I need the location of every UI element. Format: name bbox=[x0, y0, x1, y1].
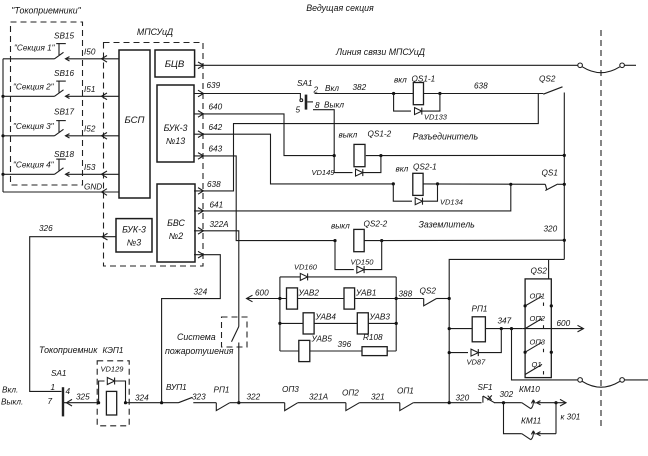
connector plug КМ11 bottom bbox=[522, 431, 541, 440]
svg-text:302: 302 bbox=[500, 390, 514, 399]
svg-text:QS2: QS2 bbox=[420, 287, 437, 296]
svg-text:КМ10: КМ10 bbox=[519, 385, 540, 394]
svg-text:R108: R108 bbox=[363, 333, 383, 342]
wire УАВ row3 bbox=[280, 350, 396, 352]
svg-text:УАВ4: УАВ4 bbox=[315, 313, 337, 322]
svg-text:КЭП1: КЭП1 bbox=[103, 346, 124, 355]
svg-text:SB16: SB16 bbox=[54, 69, 74, 78]
svg-text:325: 325 bbox=[76, 393, 90, 402]
svg-text:VD133: VD133 bbox=[424, 113, 448, 122]
svg-text:SB18: SB18 bbox=[54, 150, 74, 159]
wire bus 320 bbox=[413, 402, 481, 404]
diode VD134 loop bbox=[393, 184, 463, 207]
svg-text:№13: №13 bbox=[166, 136, 185, 146]
wire 640 bbox=[194, 114, 334, 156]
relay coil РП1 bbox=[449, 305, 523, 342]
diode VD87 loop bbox=[449, 329, 501, 367]
svg-text:выкл: выкл bbox=[331, 222, 350, 231]
svg-text:№3: №3 bbox=[127, 238, 142, 248]
svg-text:выкл: выкл bbox=[339, 131, 358, 140]
node РП1 left bbox=[448, 327, 451, 330]
pin arrow 324 bbox=[198, 251, 204, 258]
svg-text:QS1-2: QS1-2 bbox=[368, 130, 392, 139]
svg-text:324: 324 bbox=[194, 288, 208, 297]
resistor R108 bbox=[362, 347, 387, 356]
node QS2-2 left bbox=[333, 239, 336, 242]
svg-text:QS1: QS1 bbox=[542, 169, 558, 178]
coil УАВ1 bbox=[344, 288, 355, 309]
svg-text:вкл: вкл bbox=[394, 76, 407, 85]
coil УАВ4 bbox=[303, 313, 314, 334]
svg-text:ОП3: ОП3 bbox=[282, 385, 299, 394]
wire Линия связи МПСУиД bbox=[195, 64, 578, 66]
switch QS2 top (disconnector blade) bbox=[539, 75, 563, 95]
switch SB17 bbox=[3, 108, 119, 139]
node УАВ row2 right bbox=[395, 322, 398, 325]
svg-text:РП1: РП1 bbox=[472, 305, 488, 314]
diode VD150 loop bbox=[335, 241, 382, 274]
wire 638 top (QS1-1 to QS2) bbox=[424, 93, 544, 95]
svg-text:322А: 322А bbox=[210, 220, 230, 229]
node 347 bbox=[500, 327, 503, 330]
svg-text:КМ11: КМ11 bbox=[521, 417, 541, 426]
switch ОП3 (in QS2 box) bbox=[525, 338, 546, 353]
switch Q1 (in QS2 box) bbox=[525, 360, 543, 375]
node fire-bus bbox=[237, 401, 240, 404]
svg-text:326: 326 bbox=[39, 224, 53, 233]
node КЭП1 right bbox=[124, 401, 127, 404]
node КЭП1 left bbox=[97, 401, 100, 404]
svg-text:320: 320 bbox=[456, 394, 470, 403]
switch ВУП1 bbox=[166, 383, 193, 403]
node QS1-1 right bbox=[438, 92, 441, 95]
svg-text:VD150: VD150 bbox=[351, 258, 375, 267]
svg-text:4: 4 bbox=[66, 387, 71, 396]
wire КМ11 loop bbox=[504, 403, 522, 434]
wire УАВ row2 bbox=[280, 322, 396, 324]
pin arrow I50 bbox=[102, 56, 108, 63]
node УАВ row1 right bbox=[395, 297, 398, 300]
svg-text:ВУП1: ВУП1 bbox=[166, 383, 187, 392]
svg-text:8: 8 bbox=[315, 101, 320, 110]
pin arrow 642 bbox=[198, 131, 204, 138]
svg-text:Разъединитель: Разъединитель bbox=[413, 132, 479, 142]
svg-text:320: 320 bbox=[544, 225, 558, 234]
node QS2-1 left bbox=[392, 182, 395, 185]
svg-text:640: 640 bbox=[209, 103, 223, 112]
svg-text:Заземлитель: Заземлитель bbox=[419, 220, 476, 230]
contact ОП2 (bus) bbox=[342, 389, 359, 411]
svg-text:382: 382 bbox=[353, 83, 367, 92]
wire КМ10 bbox=[512, 329, 578, 380]
node bus-sec3 bbox=[1, 134, 4, 137]
node QS2 box r3l bbox=[524, 351, 527, 354]
wire bus 321 bbox=[359, 402, 399, 404]
node УАВ row1 left bbox=[278, 297, 281, 300]
svg-text:I50: I50 bbox=[84, 48, 96, 57]
svg-text:5: 5 bbox=[296, 106, 301, 115]
node QS2-2 right bbox=[380, 239, 383, 242]
node QS1-2 right bbox=[379, 154, 382, 157]
svg-text:БЦВ: БЦВ bbox=[165, 59, 185, 70]
svg-text:323: 323 bbox=[192, 393, 206, 402]
switch SA1 top (2/5/8 pins) bbox=[296, 79, 345, 115]
wire bus 323 bbox=[193, 402, 216, 404]
wire bus КЭП1 to ВУП1 bbox=[126, 402, 179, 404]
node bus-sec2 bbox=[1, 95, 4, 98]
switch SB16 bbox=[3, 69, 119, 99]
valve network frame (УАВ) bbox=[280, 277, 396, 351]
svg-text:SF1: SF1 bbox=[478, 383, 493, 392]
svg-text:I51: I51 bbox=[84, 85, 95, 94]
switch SA1 bottom bbox=[48, 369, 71, 416]
pin arrow I53 bbox=[102, 171, 108, 178]
svg-text:БУК-3: БУК-3 bbox=[164, 123, 188, 133]
svg-text:"Секция 4": "Секция 4" bbox=[13, 161, 55, 170]
block БВС №2 bbox=[157, 184, 195, 262]
svg-text:РП1: РП1 bbox=[214, 386, 230, 395]
diode VD133 loop bbox=[394, 94, 448, 122]
coil УАВ3 bbox=[357, 313, 368, 334]
node 324-bus bbox=[160, 401, 163, 404]
node QS2 box r3r bbox=[550, 351, 553, 354]
svg-text:УАВ2: УАВ2 bbox=[298, 289, 320, 298]
contact ОП1 (bus) bbox=[397, 387, 414, 411]
node SA1-выкл joins 643 bbox=[333, 154, 336, 157]
svg-text:396: 396 bbox=[338, 340, 352, 349]
relay coil QS2-2 bbox=[331, 220, 388, 252]
wire 643 bbox=[194, 156, 335, 241]
svg-text:Вкл.: Вкл. bbox=[2, 386, 18, 395]
svg-text:7: 7 bbox=[48, 397, 53, 406]
svg-text:VD134: VD134 bbox=[440, 198, 463, 207]
wire 382 (SA1 pin2 to QS1-1) bbox=[315, 93, 414, 95]
diode VD149 loop bbox=[312, 156, 381, 177]
enclosure "Токоприемники" dashed box bbox=[11, 22, 83, 185]
svg-text:Выкл.: Выкл. bbox=[1, 398, 23, 407]
svg-text:642: 642 bbox=[209, 123, 223, 132]
svg-text:SB17: SB17 bbox=[54, 108, 74, 117]
relay coil QS2-1 bbox=[396, 163, 437, 196]
svg-text:VD87: VD87 bbox=[467, 358, 487, 367]
svg-text:643: 643 bbox=[209, 145, 223, 154]
wire 322A (БВС down through fire system) bbox=[194, 231, 239, 327]
relay coil КЭП1 bbox=[106, 391, 116, 415]
wire QS2-1 to QS1 blade bbox=[423, 183, 545, 185]
wire 388 + switch QS2 aux bbox=[396, 287, 449, 306]
svg-text:Токоприемник: Токоприемник bbox=[39, 345, 98, 355]
wire 320 (QS2-2 to bus) bbox=[364, 239, 564, 241]
svg-text:600: 600 bbox=[557, 319, 571, 328]
node КМ11 left bbox=[502, 401, 505, 404]
coil УАВ2 bbox=[287, 288, 298, 309]
block БЦВ bbox=[155, 50, 195, 77]
svg-text:"Секция 1": "Секция 1" bbox=[14, 44, 56, 53]
wire 638 from БВС (up and over) bbox=[194, 94, 538, 191]
wire 641 (БВС to QS2-1 net) bbox=[194, 184, 511, 211]
coil УАВ5 bbox=[299, 340, 310, 361]
svg-text:БСП: БСП bbox=[125, 115, 145, 126]
svg-text:638: 638 bbox=[207, 180, 221, 189]
svg-text:УАВ5: УАВ5 bbox=[311, 335, 333, 344]
svg-text:QS2-2: QS2-2 bbox=[364, 220, 388, 229]
svg-text:Система: Система bbox=[177, 332, 216, 342]
node 382-VD133 left bbox=[392, 92, 395, 95]
svg-text:321А: 321А bbox=[309, 393, 329, 402]
svg-text:SB15: SB15 bbox=[54, 32, 74, 41]
wire 326 (БУК-3 №3 to SA1) bbox=[30, 237, 116, 392]
svg-text:322: 322 bbox=[247, 393, 261, 402]
node КМ10 branch bbox=[510, 327, 513, 330]
connector plug КМ11 top bbox=[522, 400, 556, 409]
svg-text:QS2: QS2 bbox=[531, 267, 548, 276]
svg-text:вкл: вкл bbox=[396, 165, 409, 174]
enclosure МПСУиД dashed box bbox=[104, 43, 204, 267]
switch QS1 (blade to bus) bbox=[542, 169, 565, 191]
svg-text:БВС: БВС bbox=[167, 218, 185, 228]
svg-text:Вкл: Вкл bbox=[325, 84, 339, 93]
svg-text:600: 600 bbox=[255, 289, 269, 298]
node QS2-1 right bbox=[436, 182, 439, 185]
switch SB18 bbox=[3, 150, 119, 177]
pin arrow 640 bbox=[198, 111, 204, 118]
svg-text:ОП2: ОП2 bbox=[342, 389, 359, 398]
pin arrow GND bbox=[102, 189, 108, 196]
wire 642 bbox=[194, 134, 393, 184]
pin arrow 638 bbox=[198, 188, 204, 195]
svg-text:639: 639 bbox=[207, 81, 221, 90]
node bus-449 bbox=[448, 401, 451, 404]
svg-text:QS2: QS2 bbox=[539, 75, 556, 84]
svg-text:VD129: VD129 bbox=[101, 365, 125, 374]
block БУК-3 №3 bbox=[116, 219, 152, 252]
switch SB15 bbox=[3, 32, 119, 62]
svg-text:"Токоприемники": "Токоприемники" bbox=[11, 6, 81, 16]
pin arrow 322A bbox=[198, 228, 204, 235]
svg-text:638: 638 bbox=[474, 82, 488, 91]
fire system dashed box bbox=[222, 317, 248, 347]
wire bus 321А bbox=[298, 402, 346, 404]
wire к 301 arrow bbox=[556, 399, 580, 421]
svg-text:I53: I53 bbox=[84, 163, 96, 172]
svg-text:324: 324 bbox=[135, 394, 149, 403]
wire 600 right with arrow bbox=[523, 319, 584, 332]
svg-text:УАВ1: УАВ1 bbox=[355, 289, 376, 298]
svg-text:пожаротушения: пожаротушения bbox=[165, 346, 234, 356]
switch fire system bbox=[232, 327, 239, 403]
connector section link top (circles + blade) bbox=[578, 63, 636, 73]
wire QS1-2 row (640/643 net to bus) bbox=[366, 154, 565, 156]
wire 324 (БВС to bottom bus) bbox=[162, 255, 221, 403]
svg-text:I52: I52 bbox=[84, 125, 96, 134]
pin arrow 326 bbox=[102, 233, 108, 240]
svg-text:Выкл: Выкл bbox=[324, 101, 344, 110]
section boundary dashed line bbox=[600, 30, 602, 430]
svg-text:"Секция 3": "Секция 3" bbox=[13, 122, 55, 131]
node 641 joins QS2-1 wire bbox=[509, 183, 512, 186]
pin arrow 643 bbox=[198, 153, 204, 160]
svg-text:Линия связи МПСУиД: Линия связи МПСУиД bbox=[335, 47, 425, 57]
wire 600 left arrow bbox=[247, 289, 280, 302]
wire GND bbox=[3, 191, 119, 193]
wire left bus bbox=[2, 59, 4, 192]
svg-text:к 301: к 301 bbox=[561, 413, 581, 422]
wire bus start + arrow bbox=[64, 399, 99, 406]
svg-text:VD149: VD149 bbox=[312, 168, 336, 177]
pin arrow 639 bbox=[198, 90, 204, 97]
contact РП1 (bus) bbox=[214, 386, 230, 411]
pin arrow I52 bbox=[102, 133, 108, 140]
breaker SF1 bbox=[478, 383, 495, 403]
wire bus 322 bbox=[230, 402, 285, 404]
pin arrow 641 bbox=[198, 208, 204, 215]
relay coil QS1-1 bbox=[394, 75, 435, 105]
svg-text:БУК-3: БУК-3 bbox=[122, 225, 146, 235]
node bus-240 bbox=[563, 239, 566, 242]
node bus-155 bbox=[563, 154, 566, 157]
svg-text:УАВ3: УАВ3 bbox=[369, 313, 391, 322]
block БСП bbox=[119, 50, 150, 198]
node bus-184 bbox=[563, 183, 566, 186]
svg-text:GND: GND bbox=[84, 183, 102, 192]
block БУК-3 №13 bbox=[157, 85, 194, 162]
svg-text:321: 321 bbox=[371, 393, 385, 402]
svg-text:1: 1 bbox=[51, 383, 56, 392]
svg-text:"Секция 2": "Секция 2" bbox=[13, 83, 55, 92]
svg-text:SA1: SA1 bbox=[297, 79, 312, 88]
node QS2 box r1r bbox=[550, 304, 553, 307]
wire right bus (top) bbox=[563, 93, 565, 260]
svg-text:ОП1: ОП1 bbox=[397, 387, 414, 396]
svg-text:641: 641 bbox=[210, 201, 224, 210]
pin arrow I51 bbox=[102, 93, 108, 100]
wire SA1 pin8 down to 643 net bbox=[313, 110, 334, 156]
wire 639 bbox=[194, 93, 301, 95]
diode VD160 on frame top bbox=[294, 263, 318, 281]
connector КМ10 (circles + blade) bbox=[519, 378, 648, 394]
wire bus 302 bbox=[494, 402, 522, 404]
pin arrow БЦВ out bbox=[198, 62, 204, 69]
svg-text:МПСУиД: МПСУиД bbox=[137, 27, 173, 37]
node 388 joins vertical bbox=[448, 297, 451, 300]
enclosure КЭП1 dashed box bbox=[97, 361, 129, 426]
node КМ11 right bbox=[554, 401, 557, 404]
svg-text:388: 388 bbox=[399, 290, 413, 299]
wire УАВ row1 bbox=[280, 298, 396, 300]
svg-text:№2: №2 bbox=[169, 231, 184, 241]
relay coil QS1-2 bbox=[339, 130, 392, 167]
svg-text:QS2-1: QS2-1 bbox=[413, 163, 437, 172]
svg-text:VD160: VD160 bbox=[294, 263, 318, 272]
node VD87 left bbox=[448, 351, 451, 354]
node УАВ row2 left bbox=[278, 322, 281, 325]
switch ОП1 (in QS2 box) bbox=[525, 292, 545, 306]
diode VD129 loop bbox=[99, 365, 126, 403]
switch ОП2 (in QS2 box) bbox=[525, 314, 546, 329]
svg-text:347: 347 bbox=[498, 317, 512, 326]
node QS2 box r1l bbox=[524, 304, 527, 307]
contact ОП3 (bus) bbox=[282, 385, 299, 411]
contactor box QS2 (ОП contacts) bbox=[525, 259, 551, 377]
svg-text:Ведущая секция: Ведущая секция bbox=[306, 3, 374, 13]
svg-text:SA1: SA1 bbox=[51, 369, 66, 378]
node bus-sec4 bbox=[1, 173, 4, 176]
wire bus corner to lower vertical bbox=[449, 259, 564, 403]
